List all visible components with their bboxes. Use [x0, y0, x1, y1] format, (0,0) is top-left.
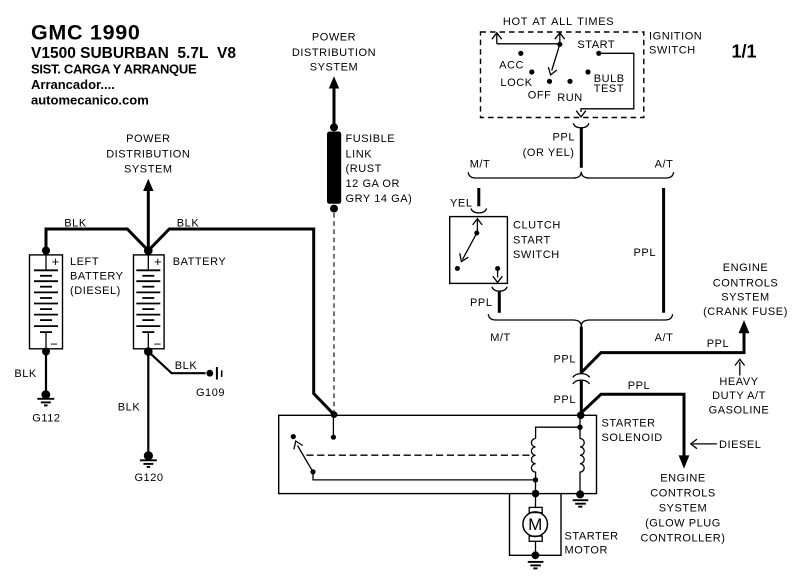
svg-text:M/T: M/T [470, 159, 491, 171]
svg-text:SYSTEM: SYSTEM [310, 61, 359, 73]
ground G112 [32, 390, 60, 424]
svg-text:CONTROLS: CONTROLS [650, 488, 716, 500]
label arrow DIESEL [691, 439, 762, 451]
clutch switch arm [460, 233, 477, 262]
svg-text:PPL: PPL [628, 380, 650, 392]
svg-text:ENGINE: ENGINE [723, 262, 768, 274]
arrow to engine controls (crank fuse) [739, 320, 750, 333]
svg-text:automecanico.com: automecanico.com [31, 93, 149, 108]
ignition switch dashed box [481, 32, 644, 118]
solenoid plunger contact arm [294, 441, 313, 472]
battery main [134, 254, 165, 352]
wire PPL from ignition switch [580, 128, 583, 168]
svg-text:G112: G112 [32, 412, 60, 424]
svg-text:TEST: TEST [594, 83, 624, 95]
wire PPL A/T branch [662, 188, 665, 313]
svg-text:SWITCH: SWITCH [513, 249, 560, 261]
svg-text:HEAVY: HEAVY [719, 376, 758, 388]
svg-text:CONTROLS: CONTROLS [713, 277, 779, 289]
node ACC [518, 51, 523, 56]
svg-text:(RUST: (RUST [346, 163, 382, 175]
svg-text:LOCK: LOCK [500, 77, 532, 89]
fusible link [327, 132, 341, 204]
svg-text:POWER: POWER [312, 31, 356, 43]
wire PPL branch to glow plug controller [581, 394, 684, 456]
wire from battery to power distribution [147, 190, 150, 251]
svg-text:BLK: BLK [118, 402, 141, 414]
svg-text:PPL: PPL [554, 353, 576, 365]
svg-text:YEL: YEL [450, 198, 472, 210]
svg-text:(OR YEL): (OR YEL) [523, 147, 575, 159]
svg-text:G120: G120 [134, 472, 163, 484]
clutch start switch box [450, 217, 508, 284]
wire BLK to G112 [45, 352, 47, 395]
svg-text:PPL: PPL [470, 297, 492, 309]
ground G109 [196, 367, 225, 399]
ground G120 [134, 451, 163, 484]
wire BLK left battery to junction [46, 229, 148, 251]
clutch switch contact node [455, 266, 460, 271]
svg-text:SIST. CARGA Y ARRANQUE: SIST. CARGA Y ARRANQUE [31, 62, 197, 77]
node left battery negative [42, 348, 50, 356]
label ENGINE CONTROLS SYSTEM (GLOW PLUG CONTROLLER) [641, 473, 726, 545]
node solenoid battery feed [331, 411, 338, 418]
svg-text:PPL: PPL [554, 394, 576, 406]
svg-text:BATTERY: BATTERY [70, 271, 124, 283]
node hold-in coil ground [576, 490, 584, 498]
starter solenoid box [279, 415, 597, 493]
node main battery positive [144, 246, 153, 255]
node solenoid PPL input [577, 412, 585, 420]
node pull-in coil bottom [533, 477, 538, 482]
wire BLK battery junction to starter solenoid [148, 229, 334, 415]
svg-text:SWITCH: SWITCH [649, 44, 696, 56]
node pull-in coil top [577, 425, 582, 430]
wire from START to ignition output [576, 53, 634, 117]
break symbol in PPL wire [573, 374, 590, 384]
svg-text:SYSTEM: SYSTEM [124, 164, 173, 176]
wire solenoid to motor brush [535, 494, 537, 508]
arrow to engine controls (glow plug) [679, 455, 690, 468]
svg-text:START: START [577, 39, 615, 51]
svg-text:DIESEL: DIESEL [719, 439, 761, 451]
ground (solenoid case) [573, 500, 589, 507]
svg-text:PPL: PPL [634, 247, 656, 259]
svg-text:M/T: M/T [490, 332, 511, 344]
dashed mechanical link [306, 454, 529, 456]
clutch switch input arrow [473, 219, 483, 233]
wire motor to ground [535, 541, 537, 555]
solenoid pull-in coil (left) [531, 439, 535, 481]
svg-text:LEFT: LEFT [70, 256, 99, 268]
label POWER DISTRIBUTION SYSTEM (left) [106, 133, 190, 176]
svg-text:SYSTEM: SYSTEM [659, 503, 708, 515]
wire to fusible link [333, 88, 336, 128]
svg-text:HOT AT ALL TIMES: HOT AT ALL TIMES [503, 16, 614, 28]
svg-text:(DIESEL): (DIESEL) [70, 285, 121, 297]
svg-text:−: − [50, 337, 58, 352]
svg-text:12 GA OR: 12 GA OR [346, 178, 401, 190]
wire PPL branch to crank fuse [581, 332, 744, 373]
svg-text:PPL: PPL [707, 338, 729, 350]
wire hot feed inside ignition switch [492, 33, 565, 44]
label LEFT BATTERY (DIESEL) [70, 256, 124, 297]
node solenoid output to motor [532, 490, 540, 498]
svg-text:MOTOR: MOTOR [565, 545, 609, 557]
arrow to power distribution system (left) [143, 179, 153, 191]
dashed wire fusible link to starter solenoid [333, 213, 335, 412]
svg-text:GASOLINE: GASOLINE [709, 405, 770, 417]
connector at ignition switch output [573, 123, 589, 128]
connector below clutch start switch [492, 287, 507, 292]
svg-text:RUN: RUN [557, 92, 582, 104]
label ENGINE CONTROLS SYSTEM (CRANK FUSE) [703, 262, 788, 318]
svg-text:DUTY A/T: DUTY A/T [712, 390, 766, 402]
svg-text:DISTRIBUTION: DISTRIBUTION [106, 149, 190, 161]
svg-text:BLK: BLK [14, 368, 37, 380]
node motor ground [532, 551, 540, 559]
node BULB TEST [585, 69, 590, 74]
wire coil bottom to motor [535, 480, 537, 494]
node LOCK [529, 69, 534, 74]
motor brush (bottom) [529, 536, 542, 541]
svg-text:OFF: OFF [528, 89, 552, 101]
battery left (diesel) [30, 254, 63, 352]
label POWER DISTRIBUTION SYSTEM (top) [292, 31, 376, 73]
svg-text:PPL: PPL [553, 131, 575, 143]
svg-text:DISTRIBUTION: DISTRIBUTION [292, 47, 376, 59]
arrow to power distribution system (top) [329, 76, 339, 88]
node solenoid arm pivot [310, 469, 315, 474]
splice bracket M/T A/T (top) [468, 172, 673, 178]
ignition switch wiper arm [548, 44, 559, 75]
svg-text:1/1: 1/1 [731, 42, 756, 62]
node solenoid contact (battery side) [331, 435, 336, 440]
svg-text:(CRANK FUSE): (CRANK FUSE) [703, 306, 788, 318]
svg-text:G109: G109 [196, 387, 225, 399]
node fusible link bottom [330, 205, 338, 213]
svg-text:POWER: POWER [126, 133, 170, 145]
svg-text:STARTER: STARTER [602, 417, 656, 429]
label arrow HEAVY DUTY A/T GASOLINE [709, 359, 770, 416]
wire PPL main (below break) [580, 381, 583, 415]
solenoid hold-in coil (right) [580, 427, 584, 494]
svg-text:(GLOW PLUG: (GLOW PLUG [645, 518, 721, 530]
svg-text:GMC 1990: GMC 1990 [31, 21, 141, 45]
svg-text:GRY 14 GA): GRY 14 GA) [346, 193, 413, 205]
wire PPL main (above break) [580, 326, 583, 373]
svg-text:SYSTEM: SYSTEM [721, 291, 770, 303]
title block [31, 21, 236, 108]
wire battery feed to solenoid contact [332, 415, 334, 438]
node START [596, 51, 601, 56]
node OFF [547, 79, 552, 84]
wire PPL below clutch switch [498, 292, 501, 313]
svg-text:CLUTCH: CLUTCH [513, 220, 561, 232]
wire BLK to G120 [147, 352, 149, 456]
ignition switch pivot node [557, 42, 562, 47]
svg-text:M: M [528, 515, 542, 534]
node solenoid contact (fixed) [291, 434, 296, 439]
node left battery positive [42, 247, 50, 255]
svg-text:BLK: BLK [177, 217, 200, 229]
motor brush (top) [529, 507, 542, 512]
node RUN [567, 79, 572, 84]
svg-text:A/T: A/T [655, 159, 674, 171]
svg-text:BLK: BLK [175, 360, 198, 372]
node main battery negative [144, 347, 153, 356]
svg-text:ENGINE: ENGINE [660, 473, 705, 485]
svg-text:START: START [513, 234, 551, 246]
svg-text:A/T: A/T [655, 332, 674, 344]
svg-text:+: + [154, 254, 162, 269]
svg-text:V1500 SUBURBAN 5.7L V8: V1500 SUBURBAN 5.7L V8 [31, 45, 236, 62]
wire arm to motor feed [313, 472, 536, 480]
clutch switch output node [495, 266, 500, 271]
ground (starter motor) [528, 562, 544, 569]
svg-text:CONTROLLER): CONTROLLER) [641, 533, 726, 545]
wire YEL to clutch start switch [477, 188, 480, 206]
svg-text:LINK: LINK [346, 149, 373, 161]
svg-text:STARTER: STARTER [565, 531, 619, 543]
wire coil top bus [536, 415, 580, 438]
label FUSIBLE LINK (RUST 12 GA OR GRY 14 GA) [346, 133, 413, 205]
connector above clutch start switch [471, 208, 487, 213]
svg-text:FUSIBLE: FUSIBLE [346, 133, 396, 145]
merge bracket M/T A/T (bottom) [488, 314, 672, 326]
svg-text:ACC: ACC [499, 59, 524, 71]
starter motor housing [510, 494, 562, 556]
starter motor M [523, 512, 548, 537]
wire BLK to G109 [148, 352, 205, 374]
svg-text:+: + [52, 254, 60, 269]
svg-text:−: − [154, 337, 162, 352]
svg-text:Arrancador....: Arrancador.... [31, 77, 115, 92]
clutch switch pivot node [474, 231, 479, 236]
svg-text:SOLENOID: SOLENOID [602, 432, 663, 444]
svg-text:BATTERY: BATTERY [173, 256, 227, 268]
clutch switch output arrow [493, 269, 503, 283]
svg-text:BLK: BLK [64, 217, 87, 229]
node fusible link top [330, 123, 338, 131]
svg-text:IGNITION: IGNITION [649, 30, 702, 42]
